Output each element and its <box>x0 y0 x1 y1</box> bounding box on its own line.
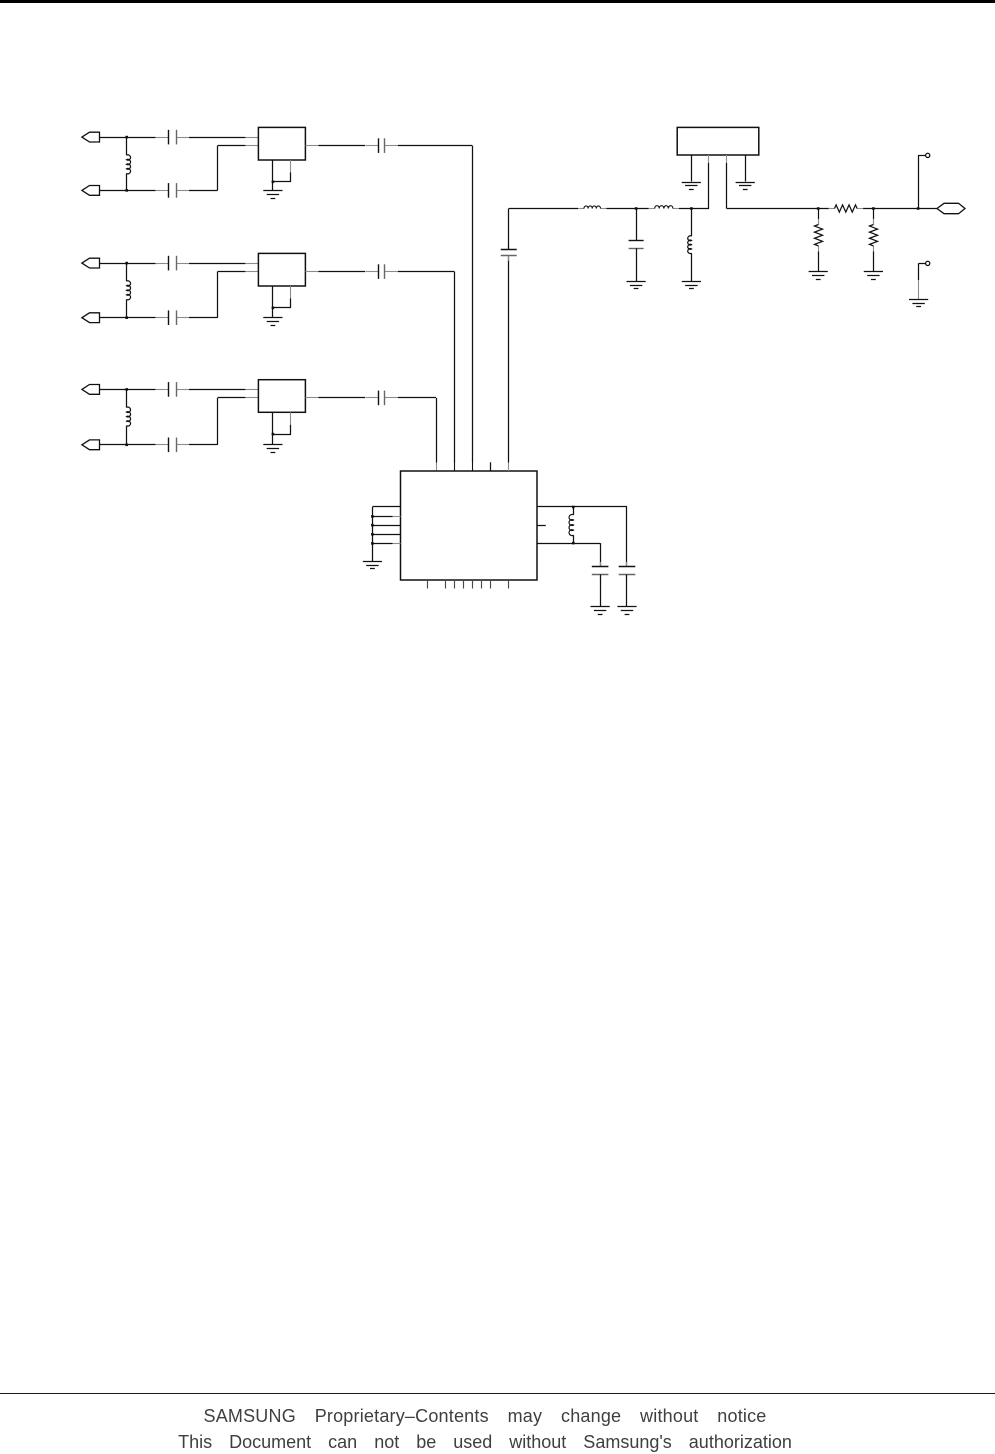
wire node D to output <box>918 208 937 210</box>
capacitor C12 <box>629 241 644 249</box>
FL1 pin3 lead <box>305 145 318 147</box>
node coil bottom junction <box>572 542 575 545</box>
pin U1 right 1 wire <box>537 506 627 508</box>
wire C1a to FL1 pin1 <box>189 137 258 139</box>
pin U1 bottom 7 <box>490 580 492 589</box>
pin U1 bottom 4 <box>463 580 465 589</box>
footer notice line 1 <box>0 1406 970 1427</box>
ground FL2 <box>263 318 282 326</box>
pin U1 left 4 <box>372 534 400 536</box>
wire node to L2 <box>126 263 128 281</box>
connector P3 (input 2+) <box>82 258 100 268</box>
inductor L2 shunt <box>127 281 131 300</box>
node left bus junction <box>371 533 374 536</box>
pin U1 bottom 2 <box>445 580 447 589</box>
node block1 top junction <box>125 136 128 139</box>
inductor L6 <box>649 206 679 209</box>
pin U1 left 3 <box>372 525 400 527</box>
pin U1 top stub <box>490 462 492 471</box>
wire L1 to bottom node <box>126 173 128 190</box>
wire riser to U1 pin <box>472 146 474 471</box>
wire to C11 <box>626 507 628 567</box>
FL3 pin3 lead <box>305 397 318 399</box>
node left bus junction <box>371 515 374 518</box>
pin U1 bottom 1 <box>427 580 429 589</box>
wire node to L3 <box>126 389 128 407</box>
balun FL3 <box>258 380 305 413</box>
inductor L3 shunt <box>127 407 131 426</box>
connector J7 output <box>937 203 965 213</box>
wire R3 to ground <box>873 251 875 271</box>
wire riser to U1 pin <box>454 272 456 471</box>
ground C10 <box>591 607 610 615</box>
wire R1 to ground <box>818 251 820 271</box>
wire riser to FL3 pin2 <box>218 397 259 399</box>
node B <box>690 207 693 210</box>
connector P5 (input 3+) <box>82 385 100 395</box>
pin U2-2 lead <box>708 155 710 209</box>
wire to C10 <box>600 543 602 567</box>
FL1 pin5 lead <box>273 160 291 182</box>
resistor R1 lead <box>818 209 820 225</box>
resistor R1 <box>815 219 823 251</box>
wire L3 to bottom node <box>126 426 128 445</box>
ground L7 <box>682 282 701 289</box>
pin U2-4 lead <box>745 155 747 182</box>
wire FL2 to C2c <box>318 271 365 273</box>
capacitor C3b (bottom) <box>156 438 189 453</box>
wire C2a to FL2 pin1 <box>189 263 258 265</box>
capacitor C2c (output) <box>366 264 398 279</box>
wire U2 pin3 to node C <box>727 208 829 210</box>
node E <box>917 207 920 210</box>
wire P4 to node <box>100 317 156 319</box>
pin U1 right 3 wire <box>537 543 600 545</box>
FL1 pin4 lead <box>272 160 274 182</box>
pin U2-3 lead <box>726 155 728 209</box>
capacitor C2a (top) <box>156 256 189 271</box>
connector P2 (input 1-) <box>82 186 100 196</box>
pin U1 left 1 <box>372 506 400 508</box>
wire C1c to riser <box>398 145 472 147</box>
connector P4 (input 2-) <box>82 313 100 323</box>
wire U1 left bus <box>372 507 374 561</box>
wire P1 to node <box>100 137 156 139</box>
wire C2b to riser <box>189 317 218 319</box>
ground FL1 <box>263 191 282 199</box>
node block3 top junction <box>125 388 128 391</box>
wire FL3 to C3c <box>318 397 365 399</box>
wire R2 to node D <box>863 208 918 210</box>
wire C11 to ground <box>626 575 628 608</box>
connector P6 (input 3-) <box>82 440 100 450</box>
inductor L7 <box>688 236 692 254</box>
wire C9 to main net <box>508 209 510 250</box>
wire U1 top pin to C9 <box>508 256 510 471</box>
capacitor C9 <box>501 245 517 261</box>
FL2 pin5 lead <box>273 286 291 308</box>
ground C12 <box>627 282 646 289</box>
wire riser up <box>217 272 219 318</box>
terminal TP2 <box>926 261 930 265</box>
wire to ground <box>272 182 274 191</box>
wire TP2 to ground <box>919 263 926 299</box>
ground R1 <box>809 272 828 280</box>
wire to ground <box>272 434 274 445</box>
resistor R2 (series) <box>829 205 864 212</box>
FL3 pin4 lead <box>272 412 274 434</box>
pin U1 bottom 3 <box>454 580 456 589</box>
capacitor C12 lead <box>636 209 638 241</box>
node A <box>635 207 638 210</box>
filter U2 <box>677 127 759 155</box>
node block2 bottom junction <box>125 316 128 319</box>
capacitor C3a (top) <box>156 382 189 397</box>
capacitor C1b (bottom) <box>156 183 189 198</box>
capacitor C10 <box>592 562 609 580</box>
footer notice line 2 <box>0 1432 970 1453</box>
terminal TP1 <box>926 153 930 157</box>
wire L7 to ground <box>691 253 693 281</box>
capacitor C3c (output) <box>366 391 398 406</box>
ground FL3 <box>263 445 282 453</box>
wire L6 to U2 pin2 <box>679 208 709 210</box>
wire FL1 to C1c <box>318 145 365 147</box>
node block3 bottom junction <box>125 444 128 447</box>
inductor L4 <box>569 507 573 543</box>
pin U1 right 2 stub <box>537 525 546 527</box>
FL2 pin4 lead <box>272 286 274 308</box>
capacitor C11 <box>619 562 636 580</box>
wire C3b to riser <box>189 444 218 446</box>
capacitor C2b (bottom) <box>156 310 189 325</box>
wire main net segment 1 <box>509 208 578 210</box>
pin U2-1 lead <box>691 155 693 182</box>
inductor L7 lead <box>691 209 693 237</box>
pin U1 left 2 <box>372 516 400 518</box>
inductor L5 <box>578 206 607 209</box>
inductor L1 shunt <box>127 155 131 174</box>
footer rule <box>0 1393 995 1394</box>
node D <box>872 207 875 210</box>
ground TP2 <box>909 300 928 307</box>
node FL2 ground junction <box>272 307 275 310</box>
wire C2c to riser <box>398 271 454 273</box>
pin U1 left 5 <box>372 543 400 545</box>
resistor R3 <box>870 219 878 251</box>
wire P2 to node <box>100 190 156 192</box>
wire P6 to node <box>100 444 156 446</box>
node coil top junction <box>572 506 575 509</box>
node FL1 ground junction <box>272 181 275 184</box>
resistor R3 lead <box>873 209 875 225</box>
ground U1 left <box>363 562 382 569</box>
capacitor C1c (output) <box>366 138 398 153</box>
wire node to L1 <box>126 137 128 155</box>
ic U1 <box>401 471 538 580</box>
wire L2 to bottom node <box>126 299 128 317</box>
wire C10 to ground <box>600 575 602 608</box>
ground C11 <box>617 607 636 615</box>
wire node E to TP1 <box>918 155 926 208</box>
node FL3 ground junction <box>272 433 275 436</box>
balun FL2 <box>258 253 305 286</box>
pin U1 bottom 8 <box>508 580 510 589</box>
wire P3 to node <box>100 263 156 265</box>
node block1 bottom junction <box>125 189 128 192</box>
balun FL1 <box>258 127 305 160</box>
pin U1 bottom 5 <box>472 580 474 589</box>
wire C12 to ground <box>636 248 638 281</box>
pin U1 bottom 6 <box>481 580 483 589</box>
connector P1 (input 1+) <box>82 132 100 142</box>
ground U2-4 <box>736 183 755 190</box>
node left bus junction <box>371 524 374 527</box>
wire riser up <box>217 398 219 445</box>
ground R3 <box>864 272 883 280</box>
wire to ground <box>272 308 274 318</box>
node C <box>817 207 820 210</box>
FL3 pin5 lead <box>273 412 291 434</box>
ground U2-1 <box>682 183 701 190</box>
wire C3a to FL3 pin1 <box>189 389 258 391</box>
wire riser to FL1 pin2 <box>218 145 259 147</box>
top border bar <box>0 0 995 3</box>
capacitor C1a (top) <box>156 130 189 145</box>
wire C1b to riser <box>189 190 218 192</box>
wire L5 to node A <box>607 208 649 210</box>
node left bus junction <box>371 542 374 545</box>
FL2 pin3 lead <box>305 271 318 273</box>
wire riser up <box>217 146 219 191</box>
wire P5 to node <box>100 389 156 391</box>
node block2 top junction <box>125 262 128 265</box>
wire riser to U1 pin <box>436 398 438 471</box>
wire C3c to riser <box>398 397 436 399</box>
wire riser to FL2 pin2 <box>218 271 259 273</box>
